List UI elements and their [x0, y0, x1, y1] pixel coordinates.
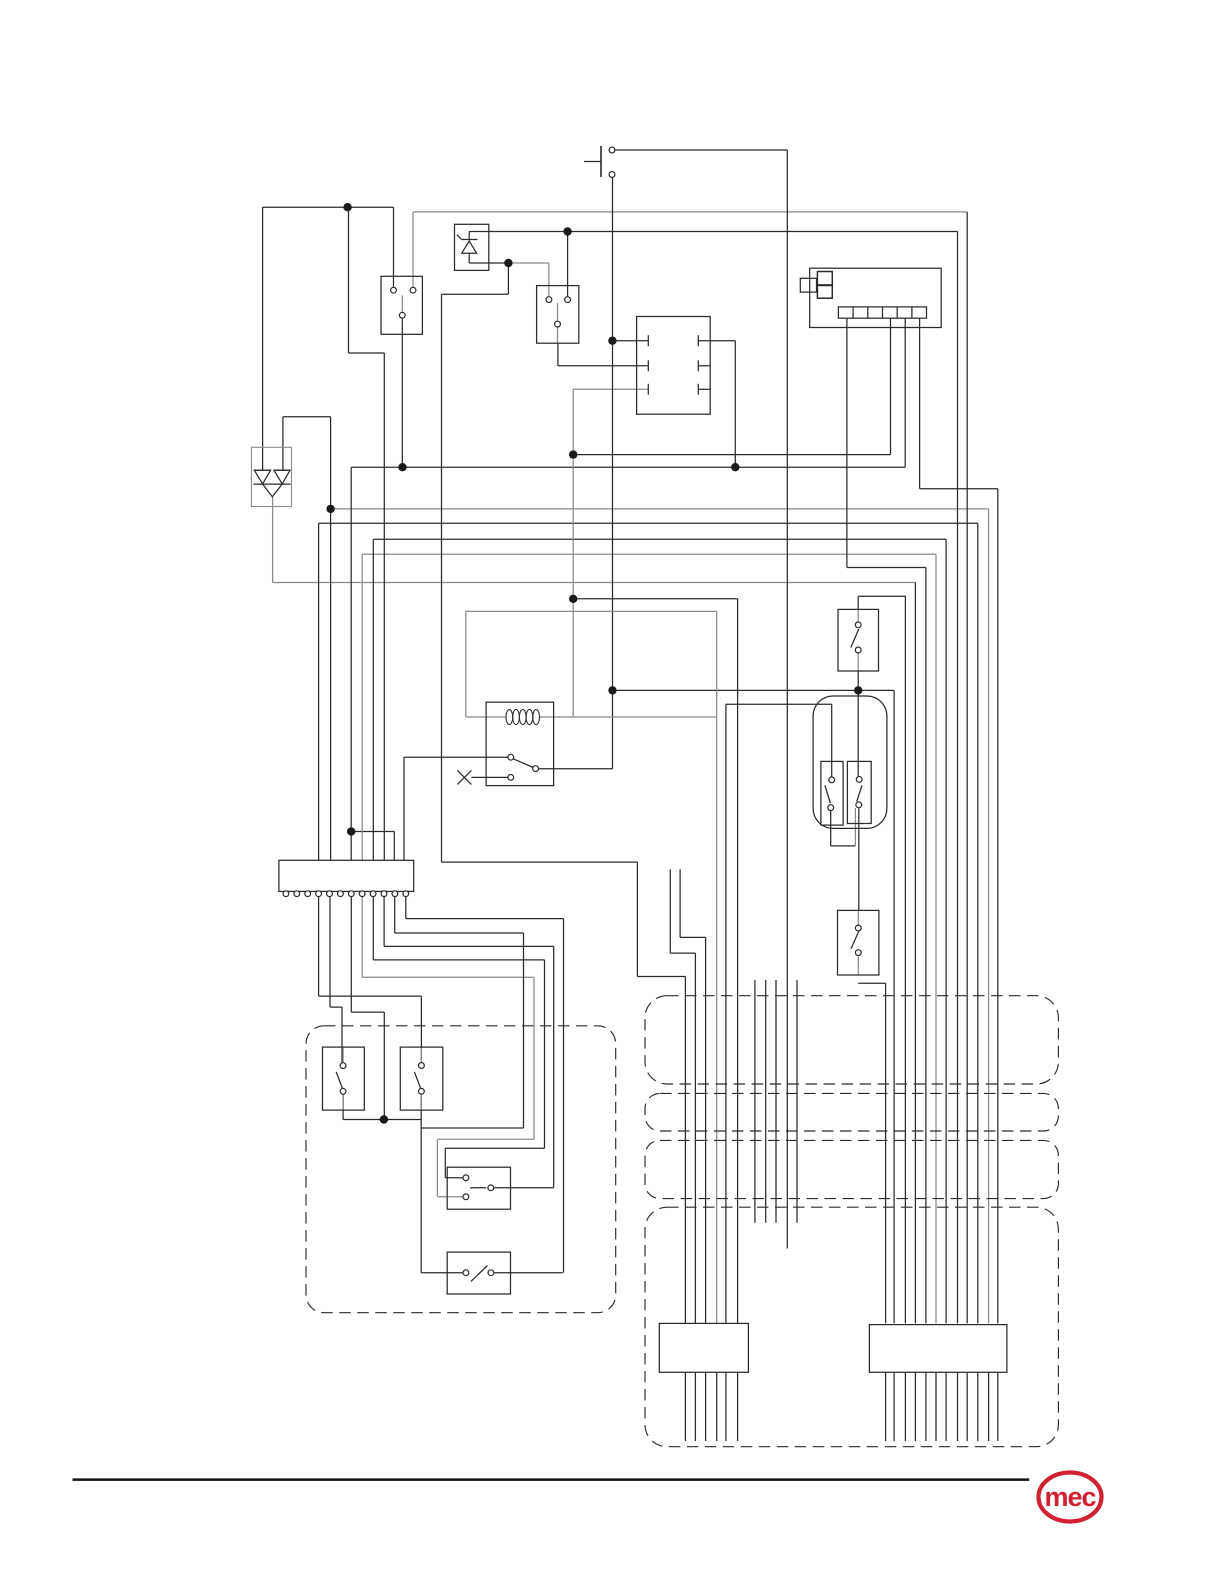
- svg-text:mec: mec: [1044, 1482, 1096, 1512]
